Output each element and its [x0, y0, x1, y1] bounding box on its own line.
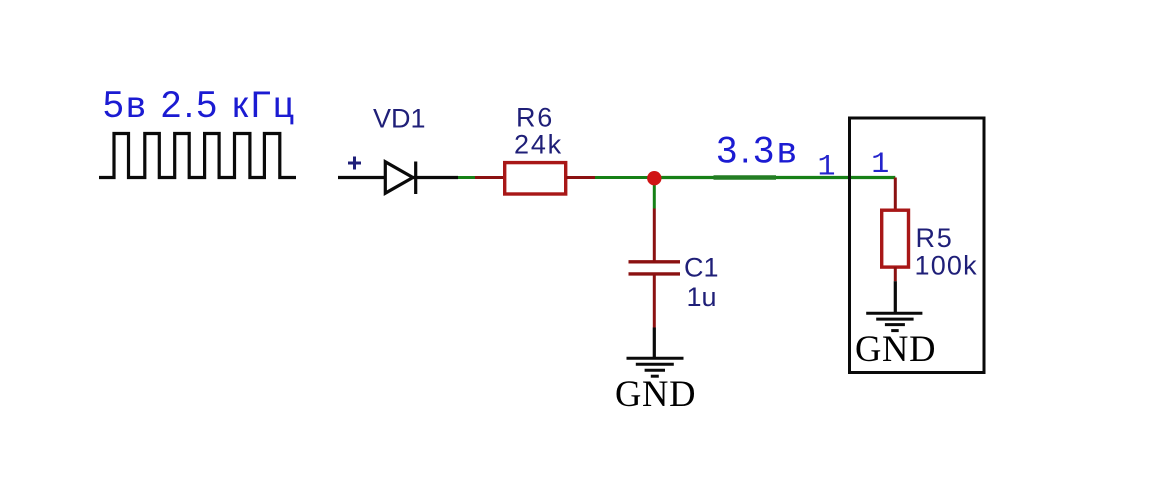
svg-text:5в 2.5 кГц: 5в 2.5 кГц — [103, 84, 297, 125]
svg-text:1: 1 — [817, 151, 835, 185]
svg-text:C1: C1 — [684, 252, 719, 282]
svg-text:R5: R5 — [916, 223, 954, 253]
svg-text:24k: 24k — [514, 129, 563, 159]
svg-text:GND: GND — [855, 328, 936, 369]
svg-text:1u: 1u — [687, 282, 717, 312]
svg-text:R6: R6 — [516, 102, 554, 132]
svg-text:GND: GND — [615, 373, 696, 414]
svg-text:VD1: VD1 — [373, 103, 426, 133]
svg-text:1: 1 — [871, 148, 889, 182]
svg-text:100k: 100k — [915, 251, 978, 281]
svg-text:3.3в: 3.3в — [717, 130, 800, 171]
